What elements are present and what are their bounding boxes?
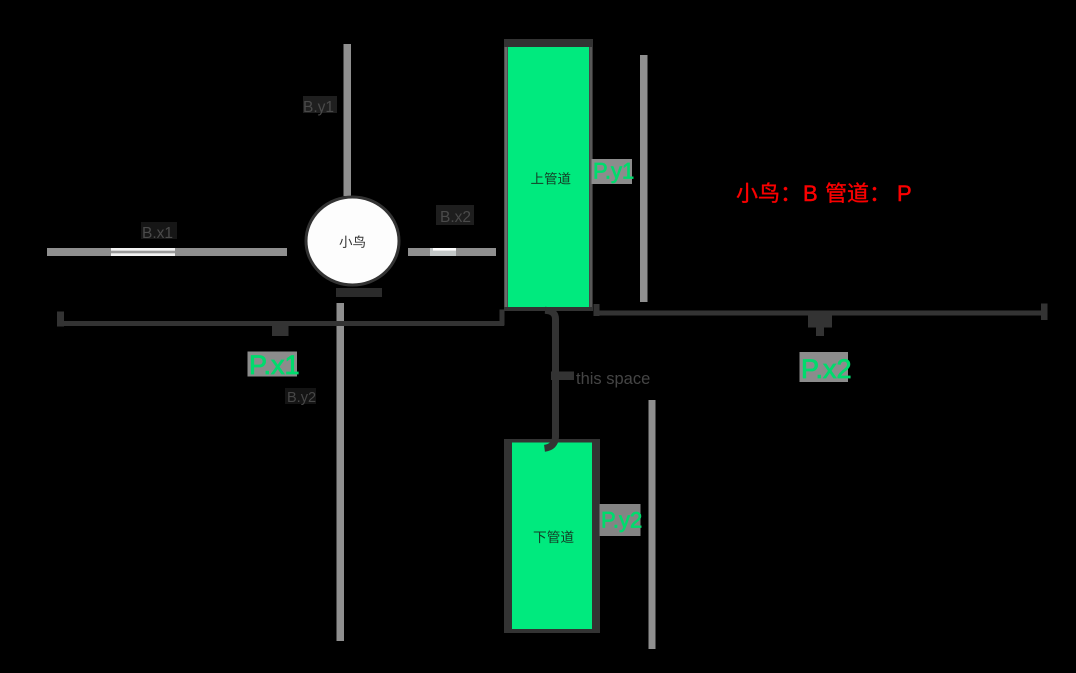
svg-text:B.x1: B.x1: [142, 225, 173, 242]
svg-text:P.y1: P.y1: [593, 159, 634, 184]
svg-text:B.x2: B.x2: [440, 209, 471, 226]
wire vertical gray line below bird: [337, 303, 345, 641]
wire B.y1 vertical gray line above bird: [344, 44, 352, 196]
shadow band under bird: [336, 288, 382, 297]
label 下管道: [534, 530, 574, 543]
svg-text:P: P: [897, 181, 912, 206]
bird circle: [306, 197, 399, 285]
label B.x2: [436, 205, 474, 225]
svg-text:this space: this space: [576, 370, 650, 388]
svg-text:B.y2: B.y2: [287, 390, 316, 406]
tick to this-space label: [551, 372, 574, 381]
connector between pipes (this space): [545, 310, 556, 448]
svg-text:B: B: [803, 181, 818, 206]
svg-text:P.y2: P.y2: [601, 508, 642, 533]
label 小鸟 (bird): [339, 235, 365, 247]
svg-text:B.y1: B.y1: [303, 99, 334, 116]
bottom pipe 下管道 body: [504, 439, 600, 633]
label 上管道: [531, 172, 570, 184]
dimension line P.x1: [57, 321, 504, 326]
label P.y2: [600, 504, 641, 536]
top pipe 上管道 body: [504, 39, 593, 311]
label B.y2: [285, 388, 316, 404]
formula 管道：P: [826, 182, 876, 202]
B.x2 light highlight segment: [430, 248, 456, 256]
label P.x1: [248, 352, 298, 377]
wire right gray line beside bottom pipe: [649, 400, 656, 649]
svg-text:P.x1: P.x1: [249, 350, 300, 380]
wire right gray line beside top pipe: [640, 55, 648, 302]
formula 小鸟：B: [737, 182, 787, 202]
label B.x1: [141, 222, 177, 239]
wire B.x1 horizontal gray line left of bird: [47, 248, 287, 256]
label B.y1: [303, 96, 337, 113]
wire B.x2 horizontal gray line right of bird: [408, 248, 496, 256]
label P.y1: [592, 159, 633, 184]
label P.x2: [800, 352, 849, 382]
svg-text:P.x2: P.x2: [801, 354, 852, 384]
dimension line P.x2: [594, 311, 1048, 316]
B.x1 white highlight segment: [111, 248, 175, 256]
